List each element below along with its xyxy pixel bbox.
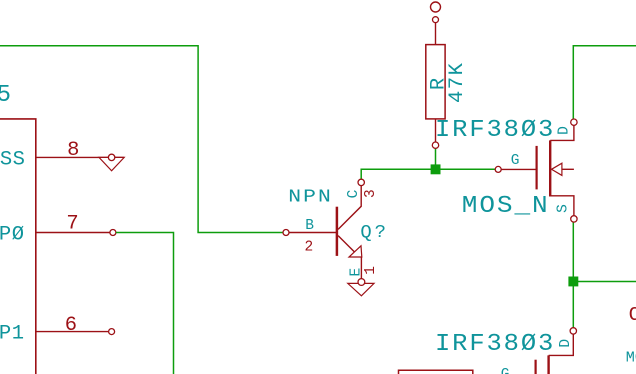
wire from top-left to NPN base bbox=[0, 46, 283, 233]
svg-text:MO: MO bbox=[626, 349, 636, 367]
pin 6 end circle bbox=[109, 329, 115, 335]
MOSFET U3 channel bar bbox=[547, 355, 549, 374]
svg-text:P1: P1 bbox=[0, 323, 25, 346]
svg-text:47K: 47K bbox=[446, 62, 469, 103]
pin number 3 bbox=[363, 189, 379, 198]
resistor R top pin circle bbox=[433, 17, 439, 23]
svg-text:1: 1 bbox=[363, 266, 379, 275]
svg-text:NPN: NPN bbox=[288, 186, 333, 208]
MOSFET U2 gate bar bbox=[535, 146, 537, 190]
resistor R bottom pin circle bbox=[432, 142, 438, 148]
NPN base end circle bbox=[283, 230, 289, 236]
wire MOSFET1 source down to MOSFET2 drain bbox=[572, 222, 574, 328]
svg-text:MOS_N: MOS_N bbox=[462, 193, 550, 220]
pin name S bbox=[556, 204, 572, 213]
NPN transistor bar bbox=[336, 207, 339, 256]
svg-text:6: 6 bbox=[65, 314, 77, 337]
svg-text:IRF38Ø3: IRF38Ø3 bbox=[435, 332, 555, 358]
wire from pin 7 down bbox=[116, 233, 174, 374]
svg-text:3: 3 bbox=[363, 189, 379, 198]
pin name E bbox=[349, 268, 365, 277]
NPN emitter end circle bbox=[358, 279, 365, 286]
pin 7 (P0) line bbox=[36, 232, 113, 234]
MOSFET U3 gate bar bbox=[534, 360, 536, 374]
svg-text:IRF38Ø3: IRF38Ø3 bbox=[435, 118, 555, 144]
component box bottom-left (partial) bbox=[399, 370, 473, 374]
pin 6 (P1) line bbox=[36, 331, 112, 333]
IC U1 body outline (partial, left edge) bbox=[0, 119, 36, 374]
MOSFET U2 drain circle bbox=[571, 119, 577, 125]
resistor R top pin line bbox=[435, 23, 437, 45]
pin 8 (SS) line bbox=[36, 156, 124, 158]
wire NPN collector to MOSFET gate bbox=[361, 169, 495, 179]
MOSFET U3 drain circle bbox=[570, 328, 576, 334]
ground symbol on pin 8 bbox=[99, 157, 124, 170]
wire top-right to MOSFET drain bbox=[573, 46, 636, 119]
svg-text:PØ: PØ bbox=[0, 223, 25, 246]
resistor R body bbox=[426, 45, 445, 119]
wire resistor bottom to junction bbox=[435, 148, 437, 169]
resistor R bottom pin line bbox=[435, 119, 437, 142]
svg-text:D: D bbox=[558, 339, 574, 348]
pin 8 end circle bbox=[108, 154, 114, 160]
NPN collector diagonal bbox=[338, 183, 361, 229]
resistor value 47K bbox=[446, 62, 469, 103]
NPN collector end circle bbox=[358, 179, 364, 185]
pin name D bbox=[557, 126, 573, 135]
svg-text:C: C bbox=[629, 304, 636, 326]
junction at resistor bottom bbox=[431, 164, 441, 174]
MOSFET U2 body arrow bbox=[552, 163, 562, 175]
pin name D (U3) bbox=[558, 339, 574, 348]
svg-text:S: S bbox=[556, 204, 572, 213]
MOSFET U2 gate circle bbox=[495, 166, 501, 172]
resistor reference R bbox=[428, 78, 451, 90]
MOSFET U2 gate pin line bbox=[501, 168, 536, 170]
svg-text:5: 5 bbox=[0, 82, 13, 109]
MOSFET U2 channel bar bbox=[549, 140, 551, 196]
svg-text:G: G bbox=[511, 153, 520, 169]
MOSFET U2 drain path bbox=[550, 125, 574, 140]
MOSFET U2 source path bbox=[550, 196, 574, 216]
svg-text:B: B bbox=[305, 218, 314, 234]
svg-text:G: G bbox=[501, 367, 510, 374]
svg-text:7: 7 bbox=[66, 212, 78, 235]
svg-text:8: 8 bbox=[67, 139, 79, 162]
svg-text:C: C bbox=[346, 189, 362, 198]
wire junction2 to right edge bbox=[573, 281, 636, 283]
svg-text:SS: SS bbox=[0, 148, 25, 171]
junction 2 bbox=[568, 277, 578, 287]
NPN emitter diagonal bbox=[338, 236, 356, 254]
pin 7 end circle bbox=[110, 230, 116, 236]
pin name C bbox=[346, 189, 362, 198]
pin number 1 bbox=[363, 266, 379, 275]
MOSFET U3 drain path bbox=[549, 334, 574, 355]
NPN emitter pin line bbox=[360, 257, 362, 279]
svg-text:D: D bbox=[557, 126, 573, 135]
ground symbol on emitter bbox=[348, 283, 374, 295]
resistor R top open circle bbox=[431, 2, 441, 12]
svg-text:2: 2 bbox=[305, 240, 314, 256]
NPN transistor Q? base pin bbox=[289, 232, 336, 234]
NPN emitter arrowhead bbox=[349, 246, 362, 257]
MOSFET U2 bulk line bbox=[562, 168, 574, 170]
MOSFET U2 source circle bbox=[571, 216, 577, 222]
svg-text:Q?: Q? bbox=[360, 221, 388, 243]
